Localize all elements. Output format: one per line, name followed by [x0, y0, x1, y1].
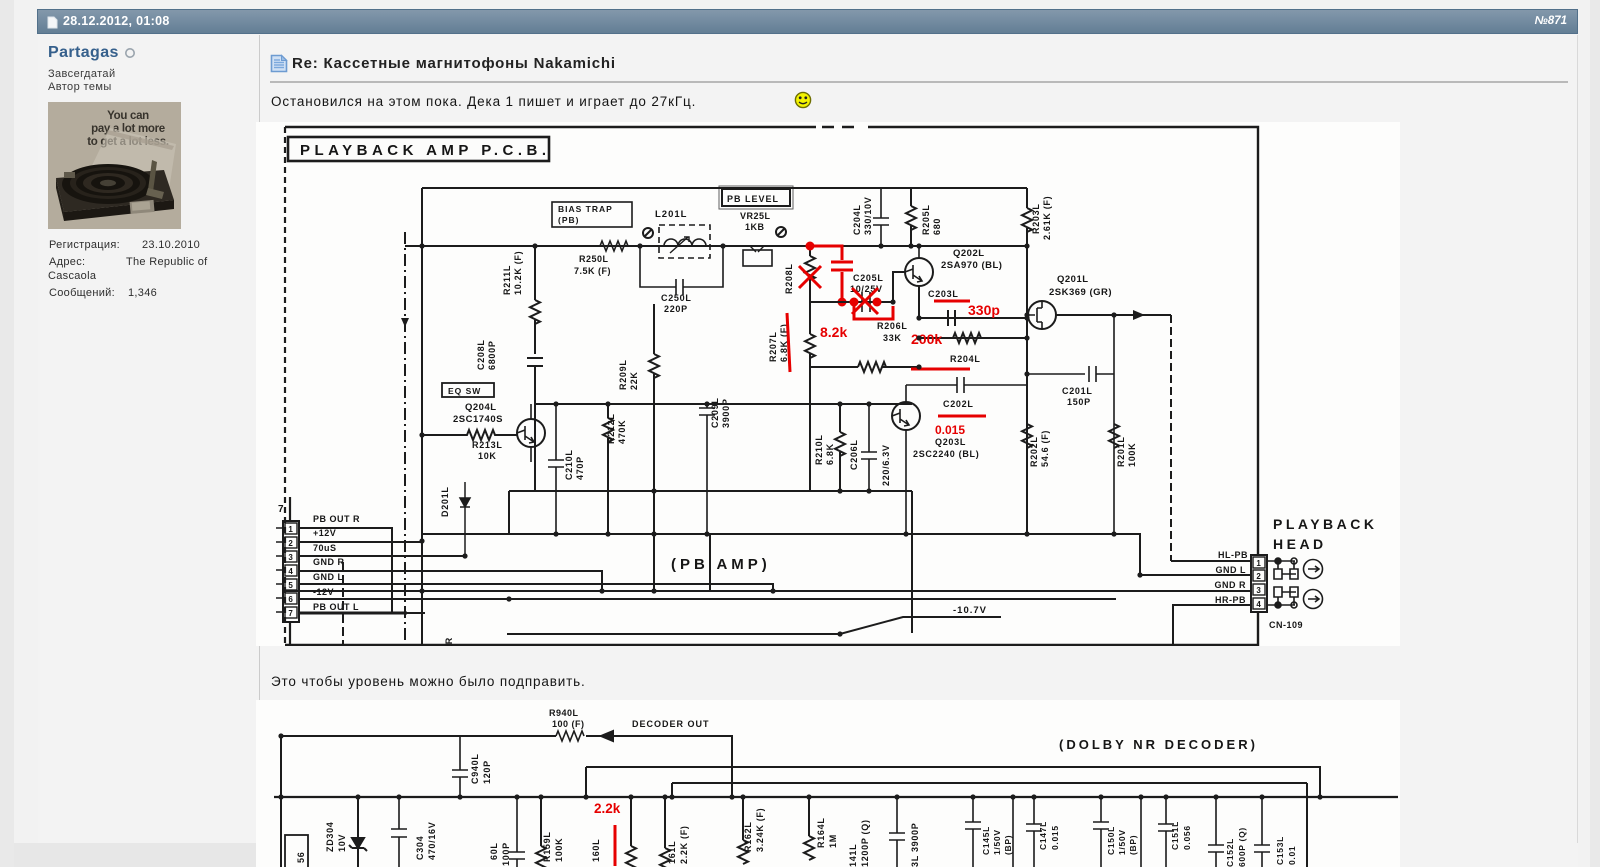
svg-text:1R: 1R — [444, 637, 454, 646]
svg-text:ZD304: ZD304 — [325, 821, 335, 852]
svg-text:141L: 141L — [848, 844, 858, 867]
svg-text:L201L: L201L — [655, 209, 687, 220]
svg-text:100K: 100K — [1127, 443, 1137, 467]
svg-text:Q201L: Q201L — [1057, 274, 1089, 285]
wire C203 row — [919, 286, 1027, 326]
svg-text:R207L: R207L — [768, 331, 778, 362]
resistor R208L (bypassed) — [805, 246, 815, 302]
svg-text:100K: 100K — [554, 838, 564, 862]
svg-text:BIAS TRAP: BIAS TRAP — [558, 204, 613, 214]
svg-text:VR25L: VR25L — [740, 211, 771, 221]
wire -10.7V run — [507, 617, 1001, 634]
svg-text:C145L: C145L — [981, 826, 991, 855]
wire FET drain row — [1056, 314, 1171, 316]
capacitor C150L group — [1093, 797, 1141, 867]
capacitor C147L — [1026, 797, 1042, 867]
capacitor C209L — [699, 404, 715, 534]
red strike old value — [938, 415, 986, 418]
wire dashed right drop — [1170, 315, 1172, 561]
title box PLAYBACK AMP P.C.B. — [288, 137, 549, 161]
svg-text:C201L: C201L — [1062, 386, 1093, 396]
box BIAS TRAP label — [552, 202, 632, 227]
connector CN-109 — [1251, 555, 1267, 612]
diode D201L — [460, 482, 470, 556]
svg-text:100 (F): 100 (F) — [552, 719, 585, 729]
svg-text:220/6.3V: 220/6.3V — [881, 444, 891, 486]
transistor Q203L — [892, 385, 920, 534]
svg-text:PB OUT L: PB OUT L — [313, 602, 359, 612]
svg-text:470K: 470K — [617, 420, 627, 444]
capacitor C201L — [1027, 315, 1114, 534]
svg-text:C940L: C940L — [470, 753, 480, 784]
svg-text:HR-PB: HR-PB — [1215, 595, 1246, 605]
red mod: short across C205L — [850, 288, 894, 319]
resistor R206L — [810, 362, 919, 372]
transistor Q201L FET — [1027, 301, 1056, 329]
wire long bus — [422, 534, 1251, 575]
box EQ SW — [442, 383, 494, 397]
svg-text:R208L: R208L — [784, 263, 794, 294]
wire emitter drop — [602, 491, 912, 633]
svg-text:PB LEVEL: PB LEVEL — [727, 194, 779, 204]
svg-text:DECODER OUT: DECODER OUT — [632, 719, 710, 729]
svg-text:R162L: R162L — [743, 821, 753, 852]
svg-text:R202L: R202L — [1029, 436, 1039, 467]
capacitor C202L — [906, 377, 1027, 393]
svg-text:100P: 100P — [501, 842, 511, 866]
resistor R160L (crossed, 2.2k) — [626, 797, 636, 867]
svg-text:R209L: R209L — [618, 359, 628, 390]
svg-text:120P: 120P — [482, 760, 492, 784]
svg-text:1: 1 — [288, 525, 293, 534]
wire feedback row 200k — [919, 333, 1027, 343]
svg-text:7: 7 — [288, 609, 293, 618]
svg-text:R201L: R201L — [1116, 436, 1126, 467]
resistor R211L + capacitor C208L stack — [527, 246, 543, 491]
svg-text:2: 2 — [288, 539, 293, 548]
svg-text:330/10V: 330/10V — [863, 197, 873, 235]
zener ZD304 — [349, 797, 367, 867]
svg-text:6: 6 — [288, 595, 293, 604]
svg-text:330p: 330p — [968, 302, 1000, 318]
svg-text:R206L: R206L — [877, 321, 908, 331]
svg-text:2.61K (F): 2.61K (F) — [1042, 196, 1052, 240]
svg-text:PLAYBACK: PLAYBACK — [1273, 516, 1378, 532]
svg-text:2.2k: 2.2k — [594, 801, 621, 816]
svg-text:3900P: 3900P — [721, 398, 731, 428]
inductor L201L — [659, 225, 710, 258]
svg-text:GND L: GND L — [1216, 565, 1247, 575]
wire HL-PB — [1171, 560, 1251, 562]
resistor R940L — [556, 731, 584, 741]
resistor R201L — [1109, 424, 1119, 448]
wire box A — [586, 767, 1320, 797]
svg-text:2.2K (F): 2.2K (F) — [679, 825, 689, 864]
svg-text:C304: C304 — [415, 836, 425, 860]
svg-text:R205L: R205L — [921, 204, 931, 235]
svg-text:0.015: 0.015 — [1050, 825, 1060, 850]
svg-text:R164L: R164L — [816, 817, 826, 848]
svg-text:70uS: 70uS — [313, 543, 337, 553]
svg-text:D201L: D201L — [440, 486, 450, 517]
svg-text:R250L: R250L — [579, 254, 609, 264]
capacitor C250L — [640, 246, 723, 295]
svg-text:C203L: C203L — [928, 289, 959, 299]
svg-text:(PB AMP): (PB AMP) — [671, 556, 771, 573]
red X over R208L — [799, 266, 821, 288]
svg-text:(PB): (PB) — [558, 215, 579, 225]
resistor R202L — [1022, 424, 1032, 448]
svg-text:HEAD: HEAD — [1273, 536, 1327, 552]
svg-text:6800P: 6800P — [487, 340, 497, 370]
transistor Q202L — [905, 246, 933, 286]
resistor R209L — [649, 304, 659, 592]
capacitor C141L — [889, 797, 905, 867]
svg-text:7.5K (F): 7.5K (F) — [574, 266, 611, 276]
svg-text:GND L: GND L — [313, 572, 344, 582]
wire main bus — [405, 245, 1027, 247]
svg-text:470P: 470P — [575, 456, 585, 480]
svg-text:Q202L: Q202L — [953, 248, 985, 259]
svg-text:1: 1 — [1256, 559, 1261, 568]
svg-text:+12V: +12V — [313, 528, 336, 538]
svg-text:10V: 10V — [337, 834, 347, 852]
svg-text:60L: 60L — [489, 842, 499, 860]
svg-text:C208L: C208L — [476, 339, 486, 370]
svg-text:22K: 22K — [629, 371, 639, 390]
svg-text:C210L: C210L — [564, 449, 574, 480]
capacitor C152L — [1208, 797, 1224, 867]
svg-text:C152L: C152L — [1225, 838, 1235, 867]
svg-text:2SA970 (BL): 2SA970 (BL) — [941, 260, 1002, 271]
svg-text:C150L: C150L — [1106, 826, 1116, 855]
svg-text:150P: 150P — [1067, 397, 1091, 407]
smiley — [794, 91, 812, 109]
svg-text:33K: 33K — [883, 333, 902, 343]
svg-text:0.015: 0.015 — [935, 423, 965, 437]
transistor Q204L — [517, 404, 545, 462]
wire collector row — [536, 403, 912, 405]
red mod: bypass capacitor — [799, 242, 853, 307]
wire long gnd row — [285, 590, 1251, 592]
svg-text:R211L: R211L — [502, 265, 512, 295]
wire vertical feed left — [421, 188, 423, 645]
wire inner top rail — [422, 187, 1027, 189]
resistor R212L — [603, 404, 613, 534]
svg-text:4: 4 — [1256, 600, 1261, 609]
capacitor C360L — [509, 797, 525, 867]
wire lower bus — [810, 301, 893, 303]
wire box B — [672, 783, 1307, 867]
node arrow on trace — [401, 318, 409, 327]
svg-text:160L: 160L — [591, 839, 601, 862]
svg-text:GND R: GND R — [313, 557, 345, 567]
svg-text:200k: 200k — [911, 331, 942, 347]
svg-text:4: 4 — [288, 567, 293, 576]
svg-text:C209L: C209L — [710, 397, 720, 428]
svg-text:(BP): (BP) — [1128, 835, 1138, 855]
capacitor C940L — [452, 736, 468, 797]
svg-text:R212L: R212L — [606, 413, 616, 444]
wire Q202 base — [893, 272, 905, 302]
svg-text:HL-PB: HL-PB — [1218, 550, 1248, 560]
svg-text:2SK369 (GR): 2SK369 (GR) — [1049, 287, 1112, 298]
svg-text:3: 3 — [1256, 586, 1261, 595]
svg-text:1/50V: 1/50V — [1117, 829, 1127, 855]
capacitor C206L — [861, 404, 877, 491]
junction dots — [278, 733, 1322, 799]
playback head symbol R — [1267, 587, 1323, 609]
svg-text:CN-109: CN-109 — [1269, 620, 1303, 630]
resistor R205L — [906, 188, 916, 246]
svg-text:(BP): (BP) — [1003, 835, 1013, 855]
capacitor C153L — [1254, 797, 1270, 867]
svg-text:220P: 220P — [664, 304, 688, 314]
potentiometer VR25L — [743, 250, 772, 266]
svg-text:2SC2240 (BL): 2SC2240 (BL) — [913, 449, 979, 459]
capacitor C304 — [391, 797, 407, 867]
left user column — [48, 44, 119, 62]
svg-text:C250L: C250L — [661, 293, 692, 303]
svg-text:54.6 (F): 54.6 (F) — [1040, 430, 1050, 467]
svg-text:3: 3 — [288, 553, 293, 562]
svg-text:10.2K (F): 10.2K (F) — [513, 251, 523, 295]
svg-text:Q204L: Q204L — [465, 402, 497, 413]
wire left drop — [280, 736, 282, 867]
svg-text:3.24K (F): 3.24K (F) — [755, 808, 765, 852]
box PB LEVEL label — [722, 189, 790, 206]
svg-text:C151L: C151L — [1170, 821, 1180, 850]
svg-text:GND R: GND R — [1215, 580, 1247, 590]
svg-text:3L 3900P: 3L 3900P — [910, 823, 920, 867]
resistor R162L — [738, 797, 748, 864]
svg-text:680: 680 — [932, 218, 942, 235]
svg-text:1KB: 1KB — [745, 222, 765, 232]
wire dashed drop — [342, 562, 344, 645]
resistor R213L — [422, 430, 517, 440]
svg-text:5: 5 — [288, 581, 293, 590]
resistor R207L (crossed value) — [805, 302, 815, 491]
screw mark right — [776, 227, 786, 237]
svg-text:C206L: C206L — [849, 439, 859, 470]
component box fragment — [285, 835, 308, 867]
capacitor C210L — [548, 404, 564, 534]
capacitor C151L — [1158, 797, 1174, 867]
svg-text:R210L: R210L — [814, 434, 824, 465]
svg-text:8.2k: 8.2k — [820, 324, 847, 340]
wire decoder out run — [281, 736, 732, 797]
svg-text:C153L: C153L — [1275, 836, 1285, 865]
svg-text:1/50V: 1/50V — [992, 829, 1002, 855]
svg-text:2: 2 — [1256, 572, 1261, 581]
svg-text:R213L: R213L — [472, 440, 503, 450]
svg-text:1M: 1M — [828, 834, 838, 848]
svg-text:-10.7V: -10.7V — [953, 605, 987, 616]
resistor R164L — [804, 797, 814, 860]
schematic image 1: PLAYBACK AMP PCB — [256, 122, 1400, 646]
wire HR-PB — [1173, 605, 1251, 645]
red strike over R207L value — [787, 313, 790, 372]
svg-text:600P (Q): 600P (Q) — [1237, 827, 1247, 867]
svg-text:You can: You can — [107, 110, 149, 122]
svg-text:10K: 10K — [478, 451, 497, 461]
svg-text:R159L: R159L — [542, 831, 552, 862]
capacitor C205L (crossed out) — [862, 292, 870, 312]
svg-text:1200P (Q): 1200P (Q) — [860, 819, 870, 867]
resistor R161L — [660, 797, 670, 867]
playback head symbol L — [1267, 558, 1323, 579]
svg-text:Q203L: Q203L — [935, 437, 966, 447]
svg-text:C204L: C204L — [852, 204, 862, 235]
svg-text:C147L: C147L — [1038, 821, 1048, 850]
capacitor C204L — [873, 188, 889, 246]
junction dots — [419, 243, 1142, 636]
wire dashed trace left — [404, 232, 406, 641]
schematic image 2: DOLBY NR DECODER — [256, 700, 1400, 867]
avatar — [48, 102, 181, 229]
svg-text:2SC1740S: 2SC1740S — [453, 414, 503, 425]
svg-text:PLAYBACK AMP P.C.B.: PLAYBACK AMP P.C.B. — [300, 142, 551, 159]
svg-text:161L: 161L — [667, 841, 677, 864]
svg-text:56: 56 — [296, 852, 306, 863]
pin wires — [299, 528, 1116, 613]
svg-text:R204L: R204L — [950, 354, 981, 364]
resistor R210L — [835, 404, 845, 491]
wire main bus — [274, 796, 1398, 798]
node arrow decoder out — [601, 731, 613, 741]
net labels head — [1215, 550, 1249, 605]
resistor R203L — [1022, 188, 1032, 246]
svg-text:-12V: -12V — [313, 587, 334, 597]
svg-text:R203L: R203L — [1031, 203, 1041, 234]
pin labels — [313, 514, 360, 612]
screw mark left — [643, 228, 653, 238]
svg-text:EQ SW: EQ SW — [448, 386, 481, 396]
red mod 330p — [934, 300, 970, 303]
svg-text:C202L: C202L — [943, 399, 974, 409]
resistor R159L — [536, 797, 546, 867]
connector CN left 7pin — [276, 497, 299, 645]
svg-text:(DOLBY NR DECODER): (DOLBY NR DECODER) — [1059, 737, 1258, 752]
post title — [270, 54, 288, 73]
svg-text:470/16V: 470/16V — [427, 822, 437, 860]
wire right vertical rail — [1026, 246, 1028, 534]
svg-text:R940L: R940L — [549, 708, 579, 718]
svg-text:PB OUT R: PB OUT R — [313, 514, 360, 524]
svg-text:7: 7 — [278, 504, 284, 515]
wire mid row — [509, 491, 912, 534]
border frame — [285, 127, 1258, 645]
svg-text:6.8K: 6.8K — [825, 443, 835, 465]
svg-text:C205L: C205L — [853, 273, 884, 283]
svg-text:0.01: 0.01 — [1287, 846, 1297, 865]
svg-text:0.056: 0.056 — [1182, 825, 1192, 850]
resistor R250L — [600, 241, 628, 251]
capacitor C145L group — [965, 797, 1013, 867]
